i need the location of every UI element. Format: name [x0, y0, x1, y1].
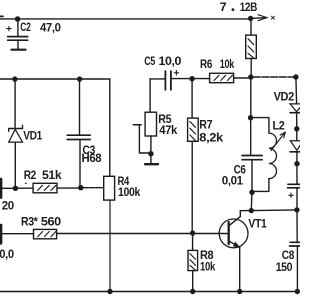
capacitor C5 10.0: [150, 78, 165, 80]
trimmer resistor R5 47k: [145, 112, 156, 136]
svg-text:10k: 10k: [200, 259, 215, 273]
node C3/R2 junction: [78, 185, 83, 190]
capacitor C3 H68: [79, 82, 81, 135]
zener diode VD1: [14, 82, 16, 128]
node R5 bottom junction: [148, 151, 153, 156]
svg-text:R2: R2: [24, 168, 37, 182]
svg-text:560: 560: [41, 214, 61, 228]
capacitor C1 (partial, cut at left edge): [0, 179, 2, 197]
svg-text:VT1: VT1: [248, 216, 266, 230]
svg-text:12В: 12В: [240, 0, 258, 14]
inductor L2 (variable): [269, 133, 277, 179]
node VD1 top: [12, 76, 17, 81]
wire bottom ground rail: [0, 291, 300, 293]
svg-text:VD1: VD1: [23, 129, 42, 143]
svg-text:0,01: 0,01: [222, 174, 244, 188]
transistor VT1: [219, 219, 248, 248]
wire junction to R4 tap: [84, 187, 104, 189]
wire left edge stub: [0, 15, 3, 17]
wire collector rail: [240, 209, 297, 212]
capacitor C4 (partial, cut at left edge): [0, 225, 2, 243]
node C8 to rail: [295, 289, 300, 294]
node VD2 bottom: [294, 161, 299, 166]
capacitor C8 150: [296, 210, 298, 242]
resistor R8 10k: [192, 235, 194, 250]
svg-text:150: 150: [276, 260, 293, 274]
node C3 top: [77, 76, 82, 81]
svg-text:C2: C2: [20, 20, 31, 34]
node C6/L2 top: [248, 115, 253, 120]
svg-text:51k: 51k: [42, 168, 62, 182]
resistor R9 (unlabeled, top right): [250, 21, 252, 35]
svg-text:VD2: VD2: [274, 89, 295, 103]
svg-text:100k: 100k: [118, 185, 140, 199]
resistor R7 8.2k: [191, 81, 193, 118]
svg-text:8,2k: 8,2k: [199, 130, 223, 144]
node R4 to rail: [107, 289, 112, 294]
node C6 bottom / L2 bottom: [249, 190, 254, 195]
varicap diode VD2 (upper): [295, 77, 298, 104]
wire node to L2 top: [251, 118, 269, 134]
node collector/right column: [294, 207, 299, 212]
wire node to VD2 column: [253, 76, 296, 78]
capacitor C7 (electrolytic, partial right): [288, 184, 303, 188]
ground below R5: [145, 163, 158, 165]
node supply arrow terminal: [251, 17, 266, 20]
svg-text:R3*: R3*: [21, 214, 38, 228]
wire L2/C6 feed from R9 node: [250, 77, 252, 118]
node R8 to rail: [190, 289, 195, 294]
svg-text:47k: 47k: [159, 123, 177, 137]
capacitor C2 47.0: [17, 19, 19, 36]
node R9 bottom / R6 right: [248, 74, 253, 79]
node VD2 top: [293, 74, 298, 79]
resistor R3* 560: [3, 233, 34, 235]
node between VD2 diodes: [294, 126, 299, 131]
wire to R2 node: [3, 187, 13, 189]
node C2 junction: [15, 16, 21, 22]
svg-text:7: 7: [220, 0, 227, 14]
svg-text:R6: R6: [200, 57, 212, 71]
resistor R2 51k: [18, 187, 33, 189]
node VD1/R2 junction: [13, 186, 18, 191]
ground below C2: [12, 49, 26, 51]
varicap diode VD2 (lower): [296, 129, 298, 141]
wire base line R3 to VT1: [57, 233, 228, 235]
capacitor C6 0.01: [250, 120, 252, 155]
svg-text:47,0: 47,0: [40, 20, 61, 34]
wire second rail: [0, 78, 110, 80]
node emitter to rail: [237, 289, 242, 294]
svg-text:10k: 10k: [220, 57, 235, 71]
node collector junction: [249, 208, 254, 213]
resistor R4 100k: [109, 79, 111, 176]
node base junction R7/R8: [190, 230, 195, 235]
svg-text:L2: L2: [273, 118, 285, 132]
svg-text:20: 20: [2, 199, 15, 213]
wire top supply rail: [0, 18, 251, 20]
svg-text:R7: R7: [199, 117, 212, 131]
svg-text:C5: C5: [144, 54, 155, 68]
svg-text:10,0: 10,0: [159, 54, 182, 68]
node C5/R6/R7 junction: [189, 76, 194, 81]
svg-text:0,0: 0,0: [0, 247, 14, 261]
resistor R6 10k: [210, 73, 234, 82]
svg-text:H68: H68: [82, 151, 102, 165]
wire C5 to R6: [172, 78, 210, 80]
